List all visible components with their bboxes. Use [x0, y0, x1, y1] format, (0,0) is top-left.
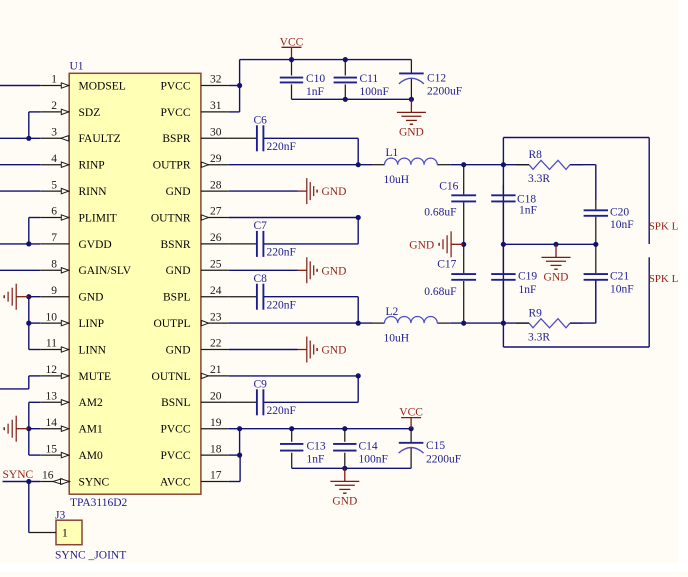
svg-text:AM2: AM2 [79, 397, 104, 409]
svg-text:25: 25 [210, 259, 222, 271]
junction OUTNL/C9 [356, 373, 361, 378]
junction C6/OUTPR [356, 162, 361, 167]
ground below C14 [344, 468, 346, 481]
pin 3 output arrow (left) [61, 136, 69, 141]
svg-text:10nF: 10nF [610, 283, 634, 295]
wire VCC bottom rail [240, 428, 412, 430]
capacitor C8 [256, 284, 258, 310]
junction filter left bottom [501, 321, 506, 326]
svg-text:AVCC: AVCC [160, 476, 191, 488]
svg-text:OUTNL: OUTNL [152, 371, 191, 383]
svg-text:GND: GND [166, 265, 191, 277]
pin 26 output arrow [201, 215, 208, 220]
wire pin8 GAIN/SLV [0, 269, 40, 271]
capacitor C14 [333, 443, 356, 445]
wire pin23 OUTPL [229, 322, 372, 324]
IC U1 TPA3116D2 body [69, 73, 201, 494]
pin 13 input arrow [61, 400, 68, 405]
wire pin18 riser [229, 454, 240, 456]
svg-text:GND: GND [166, 344, 191, 356]
wire C6 to OUTPR [263, 137, 358, 139]
svg-text:GND: GND [544, 272, 569, 284]
svg-text:30: 30 [210, 127, 222, 139]
svg-text:GND: GND [166, 186, 191, 198]
svg-text:20: 20 [210, 391, 222, 403]
svg-text:RINP: RINP [79, 160, 105, 172]
capacitor C19 [491, 273, 515, 275]
svg-text:C9: C9 [254, 379, 268, 391]
svg-text:OUTPL: OUTPL [153, 318, 190, 330]
pin 1 MODSEL stub+number+name [40, 85, 69, 87]
pin 32 PVCC stub+number+name [201, 85, 229, 87]
svg-text:PVCC: PVCC [160, 450, 190, 462]
junction C16 top [461, 162, 466, 167]
svg-text:100nF: 100nF [359, 453, 388, 465]
inductor L1 [372, 164, 385, 166]
junction C16/C17 [461, 242, 466, 247]
capacitor C17 leads [463, 244, 465, 273]
pin 24 BSPL stub+number+name [201, 296, 229, 298]
pin 10 LINP stub+number+name [40, 322, 69, 324]
svg-text:PLIMIT: PLIMIT [79, 212, 117, 224]
svg-text:GAIN/SLV: GAIN/SLV [79, 265, 132, 277]
svg-text:1nF: 1nF [519, 205, 537, 217]
svg-text:100nF: 100nF [360, 86, 389, 98]
svg-text:13: 13 [46, 391, 58, 403]
svg-text:PVCC: PVCC [160, 424, 190, 436]
junction pin16 [26, 479, 31, 484]
wire pin19 PVCC [229, 428, 240, 430]
pin 15 input arrow [61, 452, 68, 457]
wire pin5 RINN [0, 190, 40, 192]
pin 9 GND stub+number+name [40, 296, 69, 298]
wire gnd rail [292, 98, 412, 100]
svg-text:10uH: 10uH [384, 333, 410, 345]
svg-text:OUTNR: OUTNR [151, 212, 191, 224]
svg-text:16: 16 [42, 470, 54, 482]
junction filter left top [501, 162, 506, 167]
svg-text:AM1: AM1 [79, 424, 104, 436]
svg-text:220nF: 220nF [267, 141, 296, 153]
pin 11 LINN stub+number+name [40, 349, 69, 351]
svg-text:GND: GND [322, 265, 347, 277]
svg-text:C10: C10 [306, 73, 325, 85]
svg-text:27: 27 [210, 206, 222, 218]
svg-text:3.3R: 3.3R [528, 173, 550, 185]
junction C14 bottom [342, 466, 347, 471]
wire pin16 SYNC [3, 481, 41, 483]
pin 12 input arrow [61, 373, 68, 378]
capacitor C10 [280, 77, 303, 79]
pin 5 input arrow [61, 188, 68, 193]
capacitor C18 leads [502, 185, 504, 195]
svg-text:C11: C11 [360, 73, 379, 85]
svg-text:BSNR: BSNR [160, 239, 190, 251]
junction pin32 [237, 83, 242, 88]
capacitor C14 leads [344, 429, 346, 442]
pin 16 SYNC stub+number+name [40, 481, 69, 483]
svg-text:GND: GND [409, 239, 434, 251]
junction C14 top [342, 426, 347, 431]
svg-text:BSPR: BSPR [162, 133, 190, 145]
wire bottom gnd rail [292, 467, 411, 469]
wire C8 to OUTPL [263, 296, 358, 298]
pin 22 output arrow [201, 320, 208, 325]
svg-text:AM0: AM0 [79, 450, 104, 462]
pin 23 OUTPL stub+number+name [201, 322, 229, 324]
capacitor C9 [256, 389, 258, 415]
capacitor C20 [584, 209, 608, 211]
wire L1 to filter [450, 164, 503, 166]
svg-text:BSNL: BSNL [161, 397, 190, 409]
junction OUTNR/C7 [356, 215, 361, 220]
pin 22 GND stub+number+name [201, 349, 229, 351]
svg-text:C14: C14 [359, 440, 378, 452]
junction C8/OUTPL [356, 321, 361, 326]
svg-text:220nF: 220nF [267, 247, 296, 259]
wire pin28 GND [229, 190, 298, 192]
svg-text:10: 10 [46, 311, 58, 323]
svg-text:1: 1 [62, 528, 68, 540]
svg-text:RINN: RINN [79, 186, 108, 198]
svg-text:1nF: 1nF [519, 284, 537, 296]
connector J3 body [56, 520, 82, 545]
junction C17 bottom [461, 321, 466, 326]
wire right vertical upper [648, 138, 650, 245]
svg-text:21: 21 [210, 364, 222, 376]
svg-text:L1: L1 [386, 147, 399, 159]
capacitor C15 arc [399, 448, 424, 454]
svg-text:C13: C13 [307, 440, 326, 452]
svg-text:SDZ: SDZ [79, 107, 101, 119]
capacitor C6 [256, 125, 258, 151]
wire pin1 MODSEL [0, 85, 40, 87]
junction mid gnd [553, 242, 558, 247]
svg-text:2200uF: 2200uF [427, 86, 462, 98]
svg-text:19: 19 [210, 417, 222, 429]
svg-text:0.68uF: 0.68uF [424, 207, 456, 219]
wire C9 riser [357, 376, 359, 402]
svg-text:C7: C7 [254, 220, 268, 232]
ground at C16 [451, 243, 464, 245]
capacitor C21 leads [595, 244, 597, 273]
wire filter bottom rail [503, 346, 649, 348]
junction pin9 [26, 294, 31, 299]
junction pin18 [237, 453, 242, 458]
wire pin21 OUTNL [229, 375, 359, 377]
svg-text:220nF: 220nF [267, 405, 296, 417]
wire pin2 SDZ elbow [29, 111, 40, 113]
wire pin17 AVCC [229, 481, 240, 483]
ground pin22 [298, 349, 307, 351]
wire pin9 GND bus [29, 296, 40, 298]
svg-text:7: 7 [51, 232, 57, 244]
capacitor C11 leads [344, 60, 346, 76]
svg-text:1: 1 [51, 74, 57, 86]
pin 2 input arrow [61, 109, 68, 114]
svg-text:6: 6 [51, 206, 57, 218]
capacitor C17 [451, 273, 476, 275]
svg-text:32: 32 [210, 74, 222, 86]
svg-text:L2: L2 [386, 306, 399, 318]
pin 28 output arrow [201, 162, 208, 167]
svg-text:FAULTZ: FAULTZ [79, 133, 121, 145]
pin 27 OUTNR stub+number+name [201, 217, 229, 219]
svg-text:2200uF: 2200uF [426, 453, 461, 465]
junction C11 bottom [343, 97, 348, 102]
svg-text:SPK L: SPK L [649, 273, 679, 285]
svg-text:2: 2 [51, 100, 57, 112]
power VCC top [282, 46, 302, 48]
svg-text:11: 11 [46, 338, 57, 350]
svg-text:29: 29 [210, 153, 222, 165]
pin 17 AVCC stub+number+name [201, 481, 229, 483]
pin 28 GND stub+number+name [201, 190, 229, 192]
svg-text:MUTE: MUTE [79, 371, 112, 383]
svg-text:C20: C20 [610, 207, 629, 219]
junction C13 top [289, 426, 294, 431]
pin 6 PLIMIT stub+number+name [40, 217, 69, 219]
svg-text:8: 8 [51, 259, 57, 271]
svg-text:C8: C8 [254, 273, 268, 285]
pin 14 AM1 stub+number+name [40, 428, 69, 430]
junction C15 top [409, 426, 414, 431]
ground pin28 [298, 190, 307, 192]
ground at pin9 [16, 296, 29, 298]
ground pin25 [298, 269, 307, 271]
capacitor C16 leads [463, 165, 465, 195]
capacitor C18 [491, 194, 515, 196]
pin 10 input arrow [61, 320, 68, 325]
svg-text:4: 4 [51, 153, 57, 165]
pin 8 GAIN/SLV stub+number+name [40, 269, 69, 271]
svg-text:18: 18 [210, 443, 222, 455]
pin 6 input arrow [61, 215, 68, 220]
wire mid row [503, 243, 595, 245]
wire R8 to C20 [595, 165, 597, 201]
capacitor C13 leads [291, 429, 293, 442]
svg-text:BSPL: BSPL [163, 292, 191, 304]
svg-text:3: 3 [51, 127, 57, 139]
pin 26 BSNR stub+number+name [201, 243, 229, 245]
pin 7 GVDD stub+number+name [40, 243, 69, 245]
capacitor C11 [334, 77, 357, 79]
svg-text:10nF: 10nF [610, 219, 634, 231]
svg-text:5: 5 [51, 179, 57, 191]
svg-text:26: 26 [210, 232, 222, 244]
wire VCC top rail [239, 60, 241, 86]
pin 21 OUTNL stub+number+name [201, 375, 229, 377]
svg-text:9: 9 [51, 285, 57, 297]
pin 8 input arrow [61, 268, 68, 273]
capacitor C12 top plate [399, 72, 424, 74]
svg-text:R9: R9 [529, 307, 543, 319]
pin 1 input arrow [61, 83, 68, 88]
capacitor C21 [584, 273, 608, 275]
pin 5 RINN stub+number+name [40, 190, 69, 192]
svg-text:LINN: LINN [79, 344, 107, 356]
svg-text:GND: GND [79, 292, 104, 304]
svg-text:24: 24 [210, 285, 222, 297]
svg-text:C15: C15 [426, 440, 445, 452]
svg-text:220nF: 220nF [267, 299, 296, 311]
ground at pin14 [16, 428, 29, 430]
wire filter left bottom [502, 323, 504, 347]
ground mid [555, 244, 557, 257]
svg-text:TPA3116D2: TPA3116D2 [70, 497, 128, 509]
svg-text:PVCC: PVCC [160, 107, 190, 119]
wire pin11 LINN [29, 349, 40, 351]
svg-text:LINP: LINP [79, 318, 105, 330]
junction VCC [289, 57, 294, 62]
J3 pin 1 stub [29, 532, 56, 534]
svg-text:VCC: VCC [399, 407, 423, 419]
pin 2 SDZ stub+number+name [40, 111, 69, 113]
svg-text:C17: C17 [437, 259, 456, 271]
svg-text:GND: GND [322, 186, 347, 198]
svg-text:C6: C6 [254, 115, 268, 127]
pin 19 PVCC stub+number+name [201, 428, 229, 430]
svg-text:SYNC: SYNC [79, 476, 110, 488]
pin 3 FAULTZ stub+number+name [40, 137, 69, 139]
pin 12 MUTE stub+number+name [40, 375, 69, 377]
wire pin29 OUTPR [229, 164, 372, 166]
wire pin3 FAULTZ [0, 137, 40, 139]
svg-text:C21: C21 [610, 270, 629, 282]
wire pin32 PVCC [229, 85, 240, 87]
junction mid left [501, 242, 506, 247]
wire C7 riser [357, 218, 359, 244]
pin 4 RINP stub+number+name [40, 164, 69, 166]
wire filter top rail [503, 137, 649, 139]
pin 11 input arrow [61, 347, 68, 352]
wire pin12 MUTE elbow [29, 375, 40, 377]
wire pin6 PLIMIT elbow [29, 217, 40, 219]
junction mid right [593, 242, 598, 247]
wire pin22 GND [229, 349, 298, 351]
svg-text:10uH: 10uH [384, 174, 410, 186]
resistor R8 [503, 164, 529, 166]
svg-text:SYNC: SYNC [3, 469, 34, 481]
pin 25 GND stub+number+name [201, 269, 229, 271]
resistor R9 [503, 322, 529, 324]
sheet margin right [679, 0, 688, 572]
wire pin31 PVCC riser [229, 111, 240, 113]
pin 15 AM0 stub+number+name [40, 454, 69, 456]
svg-text:SYNC _JOINT: SYNC _JOINT [55, 549, 126, 561]
junction pin19 [237, 426, 242, 431]
svg-text:0.68uF: 0.68uF [424, 286, 456, 298]
capacitor C7 [256, 231, 258, 257]
pin 13 AM2 stub+number+name [40, 401, 69, 403]
capacitor C19 leads [502, 244, 504, 273]
pin 30 BSPR stub+number+name [201, 137, 229, 139]
svg-text:J3: J3 [55, 509, 65, 521]
junction pin3/pin2 [26, 136, 31, 141]
ground below C12 [410, 99, 412, 112]
sheet margin bottom [0, 564, 688, 573]
svg-text:GND: GND [399, 127, 424, 139]
svg-text:23: 23 [210, 311, 222, 323]
svg-text:PVCC: PVCC [160, 80, 190, 92]
wire pin27 OUTNR [229, 217, 359, 219]
capacitor C10 leads [291, 60, 293, 76]
svg-text:OUTPR: OUTPR [153, 160, 191, 172]
wire pin10 LINP [29, 322, 40, 324]
pin 29 OUTPR stub+number+name [201, 164, 229, 166]
svg-text:3.3R: 3.3R [528, 331, 550, 343]
svg-text:VCC: VCC [280, 36, 304, 48]
svg-text:28: 28 [210, 179, 222, 191]
svg-text:GND: GND [322, 345, 347, 357]
wire pin15 AM0 [29, 454, 40, 456]
pin 14 input arrow [61, 426, 68, 431]
pin 16 bidirectional glyph [53, 479, 62, 485]
wire pin26 to C7 [229, 243, 257, 245]
svg-text:GVDD: GVDD [79, 239, 112, 251]
svg-text:GND: GND [332, 496, 357, 508]
svg-text:14: 14 [46, 417, 58, 429]
pin 4 input arrow [61, 162, 68, 167]
svg-text:1nF: 1nF [307, 453, 325, 465]
wire pin24 to C8 [229, 296, 257, 298]
svg-text:C19: C19 [518, 270, 537, 282]
wire pin13 AM2 bus [29, 401, 40, 403]
svg-text:C12: C12 [427, 73, 446, 85]
svg-text:C16: C16 [439, 181, 458, 193]
wire L2 to filter [450, 322, 503, 324]
capacitor C12 arc [399, 78, 424, 84]
svg-text:31: 31 [210, 100, 222, 112]
capacitor C15 top plate [399, 442, 424, 444]
capacitor C13 [280, 443, 303, 445]
wire pin14 AM1 [29, 428, 40, 430]
pin 31 PVCC stub+number+name [201, 111, 229, 113]
wire pin30 to C6 [229, 137, 257, 139]
svg-text:15: 15 [46, 443, 58, 455]
capacitor C12 leads [410, 60, 412, 73]
svg-text:SPK L: SPK L [649, 221, 679, 233]
wire filter left mid [502, 165, 504, 323]
junction C11 top [343, 57, 348, 62]
pin 20 output arrow [201, 373, 208, 378]
wire pin20 to C9 [229, 401, 257, 403]
svg-text:1nF: 1nF [306, 86, 324, 98]
capacitor C16 [451, 194, 476, 196]
svg-text:U1: U1 [70, 61, 84, 73]
wire pin7 GVDD [0, 243, 40, 245]
junction pin7/pin6 [26, 241, 31, 246]
wire right vertical lower [648, 257, 650, 347]
svg-text:12: 12 [46, 364, 58, 376]
wire pin4 RINP [0, 164, 40, 166]
junction C12 bottom [409, 97, 414, 102]
svg-text:R8: R8 [529, 149, 543, 161]
inductor L2 [372, 322, 385, 324]
power VCC bottom [401, 417, 421, 419]
capacitor C20 leads [595, 200, 597, 209]
wire pin25 GND [229, 269, 298, 271]
svg-text:17: 17 [210, 470, 222, 482]
svg-text:MODSEL: MODSEL [79, 80, 126, 92]
svg-text:22: 22 [210, 338, 222, 350]
junction pin10 [26, 321, 31, 326]
wire to J3 [28, 482, 30, 533]
pin 20 BSNL stub+number+name [201, 401, 229, 403]
pin 18 PVCC stub+number+name [201, 454, 229, 456]
junction pin14 [26, 426, 31, 431]
capacitor C15 leads [410, 429, 412, 442]
